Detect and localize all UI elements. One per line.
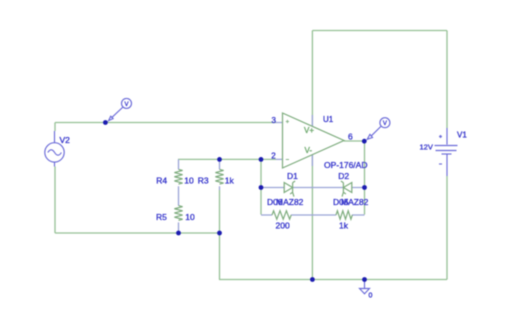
- svg-text:2: 2: [271, 151, 276, 160]
- svg-text:V+: V+: [304, 126, 314, 135]
- svg-text:D1: D1: [287, 171, 298, 181]
- svg-text:MAZ82: MAZ82: [276, 197, 304, 207]
- svg-text:V-: V-: [305, 146, 313, 155]
- svg-text:12V: 12V: [420, 143, 433, 152]
- svg-text:6: 6: [348, 132, 353, 142]
- svg-text:V2: V2: [60, 135, 71, 145]
- svg-text:V: V: [124, 102, 128, 108]
- svg-text:10: 10: [184, 175, 194, 185]
- svg-text:U1: U1: [323, 115, 334, 124]
- svg-text:0: 0: [369, 293, 373, 300]
- svg-text:D2: D2: [338, 171, 349, 181]
- svg-text:200: 200: [276, 220, 290, 230]
- svg-text:R5: R5: [156, 212, 167, 222]
- svg-text:V1: V1: [457, 131, 467, 140]
- svg-text:MAZ82: MAZ82: [341, 197, 369, 207]
- svg-text:V: V: [383, 121, 387, 127]
- svg-text:1k: 1k: [225, 175, 235, 185]
- svg-text:10: 10: [185, 212, 195, 222]
- svg-text:3: 3: [272, 116, 277, 125]
- svg-text:1k: 1k: [339, 220, 349, 230]
- svg-text:R4: R4: [156, 175, 167, 185]
- svg-text:R3: R3: [198, 175, 209, 185]
- svg-text:OP-176/AD: OP-176/AD: [324, 160, 367, 170]
